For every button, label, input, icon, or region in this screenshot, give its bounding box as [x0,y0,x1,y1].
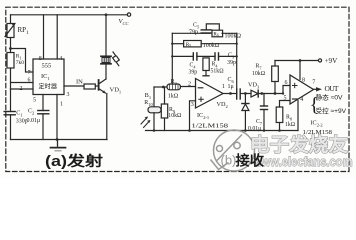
svg-text:OUT: OUT [325,84,339,93]
svg-text:1/2LM158: 1/2LM158 [192,123,229,130]
svg-text:www.elecfans.com: www.elecfans.com [252,155,352,169]
wire: pin 4 to ground [297,101,299,131]
svg-text:100kΩ: 100kΩ [203,43,220,49]
capacitor C2 [38,111,49,114]
svg-text:IC2-1: IC2-1 [197,112,209,120]
svg-text:VD3: VD3 [248,82,260,90]
emission arrows [113,52,120,66]
svg-text:C2: C2 [28,109,34,116]
svg-text:2: 2 [20,86,23,92]
wire: pin 3 output [64,85,84,87]
svg-text:RP1: RP1 [18,26,30,36]
svg-text:C7: C7 [256,119,262,126]
+9V rail [275,60,318,62]
svg-text:静态 ≈0V: 静态 ≈0V [316,93,344,102]
wire: collector up [105,64,107,80]
svg-text:C1: C1 [16,111,22,118]
svg-text:VD1: VD1 [110,87,122,95]
feedback right vertical [236,33,238,89]
diode VD3 [251,90,263,97]
svg-text:2: 2 [188,82,191,88]
svg-text:受控 ≈+9V: 受控 ≈+9V [316,106,347,115]
svg-text:+9V: +9V [325,57,339,65]
svg-text:7: 7 [28,70,31,76]
wire: emitter to rail [106,94,108,140]
resistor R1 [7,53,14,69]
svg-text:R6: R6 [213,32,218,38]
photodiode B1 [148,87,161,131]
wire: C1 to ground rail [10,115,12,140]
svg-text:B1: B1 [145,93,151,100]
wire: pin 4 to rail [56,15,58,59]
svg-text:电子发烧友: 电子发烧友 [250,133,348,156]
capacitor C6 [237,89,241,99]
wire: C6 to VD3 [240,93,251,95]
svg-text:接收: 接收 [236,152,265,170]
wire: RP1 column top [10,15,12,24]
wire: junction to pin 7 of 555 [11,49,34,73]
resistor R8 [276,107,283,131]
wire: C2 to rail [42,114,44,140]
wire after VD3 [263,93,284,95]
wire: pin 1 to rail [56,95,58,140]
svg-text:1μ: 1μ [228,84,234,90]
svg-text:39p: 39p [189,70,198,76]
svg-text:3: 3 [191,102,194,108]
wire: pin 8 to rail [43,15,45,59]
LED (infrared emitter) [101,56,111,64]
potentiometer RP1 [5,24,15,38]
transistor VD1 [99,79,106,93]
svg-text:5: 5 [284,96,287,102]
terminal Vcc [127,13,130,16]
svg-text:VCC: VCC [119,18,130,26]
op-amp IC2-2 [290,75,314,104]
svg-text:39p: 39p [227,60,236,66]
svg-text:100kΩ: 100kΩ [225,34,242,40]
wire: pin 2 of 555 [11,88,34,90]
svg-text:C3: C3 [228,53,235,60]
svg-text:C5: C5 [193,23,200,30]
svg-text:C4: C4 [190,63,197,70]
capacitor C1 [4,112,15,115]
wire: pin 5 stub [42,95,44,111]
wire row2 [172,43,183,45]
resistor R9 [161,87,167,131]
svg-text:1kΩ: 1kΩ [168,93,179,99]
resistor R3 [167,84,181,90]
svg-text:R4: R4 [212,62,219,69]
wire: pin 5 and R8 [280,101,291,108]
svg-text:555: 555 [42,63,52,70]
svg-text:3: 3 [67,92,70,98]
wire: to base [95,85,98,87]
receiver bottom rail [146,130,299,132]
watermark text [250,133,353,169]
resistor R6 [212,30,223,37]
wire: LED to rail [105,15,107,57]
border frame (dashed) [6,7,349,171]
wire: to pin 6 [283,86,290,94]
wire: R1 to pin6/pin2 node [10,68,12,89]
svg-text:IC2-2: IC2-2 [311,119,323,127]
wire row3 [172,55,193,57]
svg-text:(a)发射: (a)发射 [45,152,103,170]
wire row1 [172,32,210,34]
op-amp IC2-1 [196,79,224,109]
svg-text:1kΩ: 1kΩ [285,122,296,128]
svg-text:8: 8 [302,78,305,84]
svg-text:IN: IN [76,79,83,86]
svg-text:0.01μ: 0.01μ [248,126,261,132]
svg-text:6: 6 [285,80,288,86]
svg-text:1: 1 [222,84,225,90]
wire: pin 8 to +9V rail [299,61,301,80]
watermark logo circle [211,130,255,171]
svg-text:7: 7 [312,80,315,86]
svg-text:0.01μ: 0.01μ [27,118,41,124]
svg-text:R10: R10 [144,100,153,107]
svg-text:4: 4 [59,56,62,62]
svg-text:R7: R7 [256,64,262,71]
wire: transmitter bottom rail [11,139,108,141]
svg-text:IC1: IC1 [41,73,50,81]
capacitor C4 [193,53,197,60]
svg-text:R3: R3 [171,79,178,86]
wire: transmitter top rail [11,14,128,16]
wire: pin 3 to ground [190,101,196,131]
resistor R4 [203,58,209,76]
svg-text:10kΩ: 10kΩ [252,71,266,77]
ground [51,140,66,151]
resistor R5 [184,41,202,47]
wire: photodiode to R3 node [154,86,167,88]
svg-text:VD2: VD2 [217,101,228,109]
diode VD2 (clamp to ground) [242,94,249,131]
resistor (IN coupling box) [84,84,95,89]
capacitor C3 [215,53,219,60]
capacitor C5 [201,24,219,33]
svg-text:7k0: 7k0 [16,60,24,66]
svg-text:4: 4 [300,97,303,103]
svg-text:定时器: 定时器 [39,83,58,91]
svg-text:R5: R5 [186,42,191,48]
svg-text:(b): (b) [221,153,237,168]
svg-text:79p: 79p [189,30,198,36]
feedback network left vertical [171,33,173,84]
svg-text:5: 5 [33,98,36,104]
wire: R3 to pin 2 [181,86,196,88]
resistor R7 [272,61,279,94]
wire: node to C1 [10,89,12,112]
wire: op-amp1 output [223,93,237,95]
light arrows [141,117,151,128]
wire: pin 6 of 555 [11,82,34,84]
capacitor C7 [261,94,268,131]
svg-text:8: 8 [39,56,42,62]
svg-text:C6: C6 [228,77,235,84]
svg-text:1: 1 [60,102,63,108]
node: RP1/R1/pin7 junction [9,47,12,50]
wire: RP1 to R1 [10,38,12,53]
svg-text:10kΩ: 10kΩ [168,113,182,119]
IC 555 timer U1 [33,59,64,95]
svg-text:6: 6 [28,78,31,84]
svg-text:R8: R8 [286,115,292,122]
svg-text:51kΩ: 51kΩ [211,69,225,75]
